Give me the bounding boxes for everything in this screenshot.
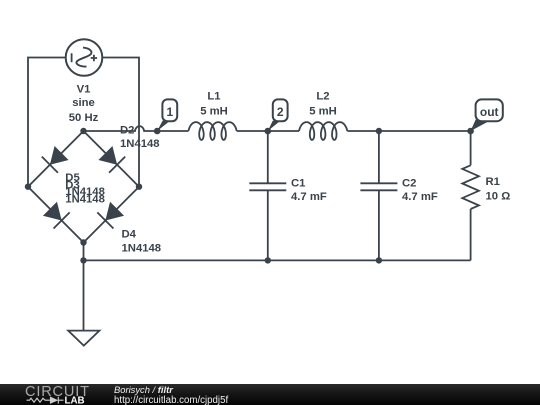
C1 label (291, 177, 327, 203)
svg-text:C2: C2 (402, 177, 416, 189)
junction dot C2 bottom (376, 257, 382, 263)
node out flag (471, 99, 503, 131)
bridge diamond wires (28, 131, 139, 243)
junction dot ground rail (80, 257, 86, 263)
svg-text:http://circuitlab.com/cjpdj5f: http://circuitlab.com/cjpdj5f (114, 395, 228, 405)
capacitor C2 top wire (378, 131, 380, 183)
svg-text:4.7 mF: 4.7 mF (402, 191, 438, 203)
bottom rail wire (84, 259, 471, 261)
svg-text:5 mH: 5 mH (200, 105, 228, 117)
L2 label (309, 91, 337, 118)
wire out node down to R1 (470, 131, 472, 165)
D3 label (65, 180, 105, 206)
junction dot bridge top vertex (80, 128, 86, 134)
D5 label (65, 172, 105, 198)
wire ground stem (83, 243, 85, 331)
L1 label (200, 91, 228, 118)
footer bar (0, 384, 540, 405)
capacitor C2 bottom wire (378, 190, 380, 260)
svg-text:Borisych / filtr: Borisych / filtr (114, 384, 174, 395)
capacitor C1 plates (249, 183, 286, 190)
inductor L1 (188, 122, 236, 140)
diode D5 (top-left) (42, 145, 70, 173)
CircuitLab logo (25, 384, 90, 405)
node 1 flag (157, 99, 177, 131)
wire L1 to node 2 (237, 130, 268, 132)
node 1 dot (154, 128, 161, 135)
wire node 2 to L2 (268, 130, 299, 132)
svg-text:L2: L2 (316, 91, 329, 103)
svg-text:10 Ω: 10 Ω (486, 190, 511, 202)
junction dot bridge right vertex (136, 184, 142, 190)
svg-text:1N4148: 1N4148 (120, 138, 160, 150)
svg-text:1N4148: 1N4148 (122, 242, 162, 254)
voltage source V1 (66, 39, 103, 76)
wire node 1 to L1 (157, 130, 188, 132)
svg-text:D4: D4 (122, 229, 137, 241)
wire L2 to out node (347, 130, 470, 132)
wire left branch from V1 to bridge left vertex (28, 58, 66, 187)
wire R1 bottom to rail (470, 209, 472, 260)
R1 label (486, 176, 511, 202)
svg-text:D2: D2 (120, 124, 134, 136)
svg-text:D3: D3 (65, 180, 79, 192)
node out dot (467, 128, 474, 135)
wire top vertex to node 1 with hop over vertical wire (84, 126, 158, 131)
node 2 dot (265, 128, 272, 135)
D2 label (120, 124, 160, 150)
svg-text:4.7 mF: 4.7 mF (291, 191, 327, 203)
resistor R1 zigzag (462, 165, 479, 209)
capacitor C1 bottom wire (267, 190, 269, 260)
svg-text:out: out (480, 105, 499, 119)
C2 label (402, 177, 438, 203)
svg-text:R1: R1 (486, 176, 500, 188)
diode D2 (top-right) (97, 145, 125, 173)
capacitor C1 top wire (267, 131, 269, 183)
svg-text:V1: V1 (77, 84, 91, 96)
svg-text:1: 1 (166, 105, 173, 119)
svg-text:5 mH: 5 mH (309, 105, 337, 117)
svg-text:1N4148: 1N4148 (65, 194, 105, 206)
svg-text:sine: sine (72, 97, 95, 109)
D4 label (122, 229, 162, 255)
capacitor C2 plates (360, 183, 397, 190)
junction dot C2 top (376, 128, 382, 134)
junction dot bridge left vertex (25, 184, 31, 190)
svg-text:C1: C1 (291, 177, 305, 189)
diode D4 (bottom-right) (97, 201, 125, 229)
junction dot C1 bottom (265, 257, 271, 263)
svg-text:LAB: LAB (65, 395, 85, 405)
ground symbol (68, 331, 99, 346)
svg-text:L1: L1 (207, 91, 220, 103)
diode D3 (bottom-left) (42, 201, 70, 229)
svg-text:50 Hz: 50 Hz (69, 112, 99, 124)
V1 value label (69, 84, 99, 124)
wire right branch from V1 to bridge right vertex (102, 58, 139, 187)
node 2 flag (268, 99, 288, 131)
junction dot bridge bottom vertex (80, 239, 86, 245)
svg-text:2: 2 (277, 105, 284, 119)
inductor L2 (299, 122, 347, 140)
